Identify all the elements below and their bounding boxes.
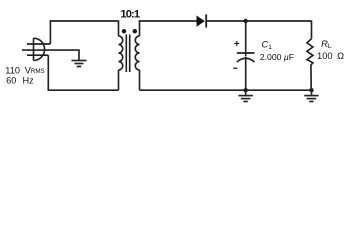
svg-text:2.000 µF: 2.000 µF <box>260 52 294 62</box>
ground G3 under load resistor <box>304 90 318 101</box>
wire bottom rail: secondary to node B <box>140 89 246 91</box>
transformer T1 primary winding <box>119 36 123 70</box>
transformer T1 primary top lead <box>118 21 120 37</box>
transformer T1 secondary phase dot <box>133 29 138 34</box>
AC source V1 top pin (hot) <box>27 43 50 45</box>
capacitor C1 polarity minus <box>233 67 237 69</box>
svg-text:110VRMS: 110VRMS <box>5 65 44 75</box>
wire from source bottom pin down to bottom rail <box>47 55 49 90</box>
resistor RL bottom lead <box>310 65 312 90</box>
ground G2 under capacitor <box>238 90 252 101</box>
svg-text:RL: RL <box>321 38 332 50</box>
svg-text:C1: C1 <box>261 38 272 51</box>
wire bottom rail: node B to node C <box>246 89 312 91</box>
transformer T1 core <box>126 35 129 73</box>
wire top rail: source to transformer primary <box>50 20 119 22</box>
wire from source top pin up to top rail <box>49 21 51 45</box>
label 110 VRMS 60 Hz for source V1 <box>5 65 44 85</box>
diode D1 <box>197 14 207 27</box>
transformer T1 secondary bottom lead <box>139 70 141 90</box>
transformer T1 secondary top lead <box>139 21 141 37</box>
wire top rail: node A to load resistor <box>246 20 312 22</box>
capacitor C1 top lead <box>245 21 247 56</box>
resistor RL zigzag <box>307 39 313 65</box>
wire bottom rail of primary loop <box>48 89 119 91</box>
transformer T1 primary bottom lead <box>118 70 120 90</box>
AC source V1 bottom pin (neutral) <box>27 54 48 56</box>
svg-text:10:1: 10:1 <box>120 8 139 20</box>
transformer T1 primary phase dot <box>122 29 127 34</box>
resistor RL top lead <box>311 21 313 39</box>
junction dot node C <box>309 88 313 92</box>
junction dot node A <box>244 19 248 23</box>
AC source V1 wall-plug body <box>34 38 45 60</box>
svg-text:100Ω: 100Ω <box>317 51 344 61</box>
wire top rail: secondary to diode anode <box>139 20 197 22</box>
junction dot node B <box>244 88 248 92</box>
capacitor C1 bottom lead <box>245 57 247 91</box>
wire from source middle pin to ground G1 <box>45 50 79 60</box>
capacitor C1 polarity plus <box>234 41 239 46</box>
ground G1 <box>72 61 87 67</box>
svg-text:60Hz: 60Hz <box>6 76 34 86</box>
transformer T1 secondary winding <box>135 36 139 70</box>
wire top rail: diode cathode to node A <box>206 20 246 22</box>
capacitor C1 plates <box>237 53 255 62</box>
AC source V1 middle pin (ground) <box>22 49 45 51</box>
